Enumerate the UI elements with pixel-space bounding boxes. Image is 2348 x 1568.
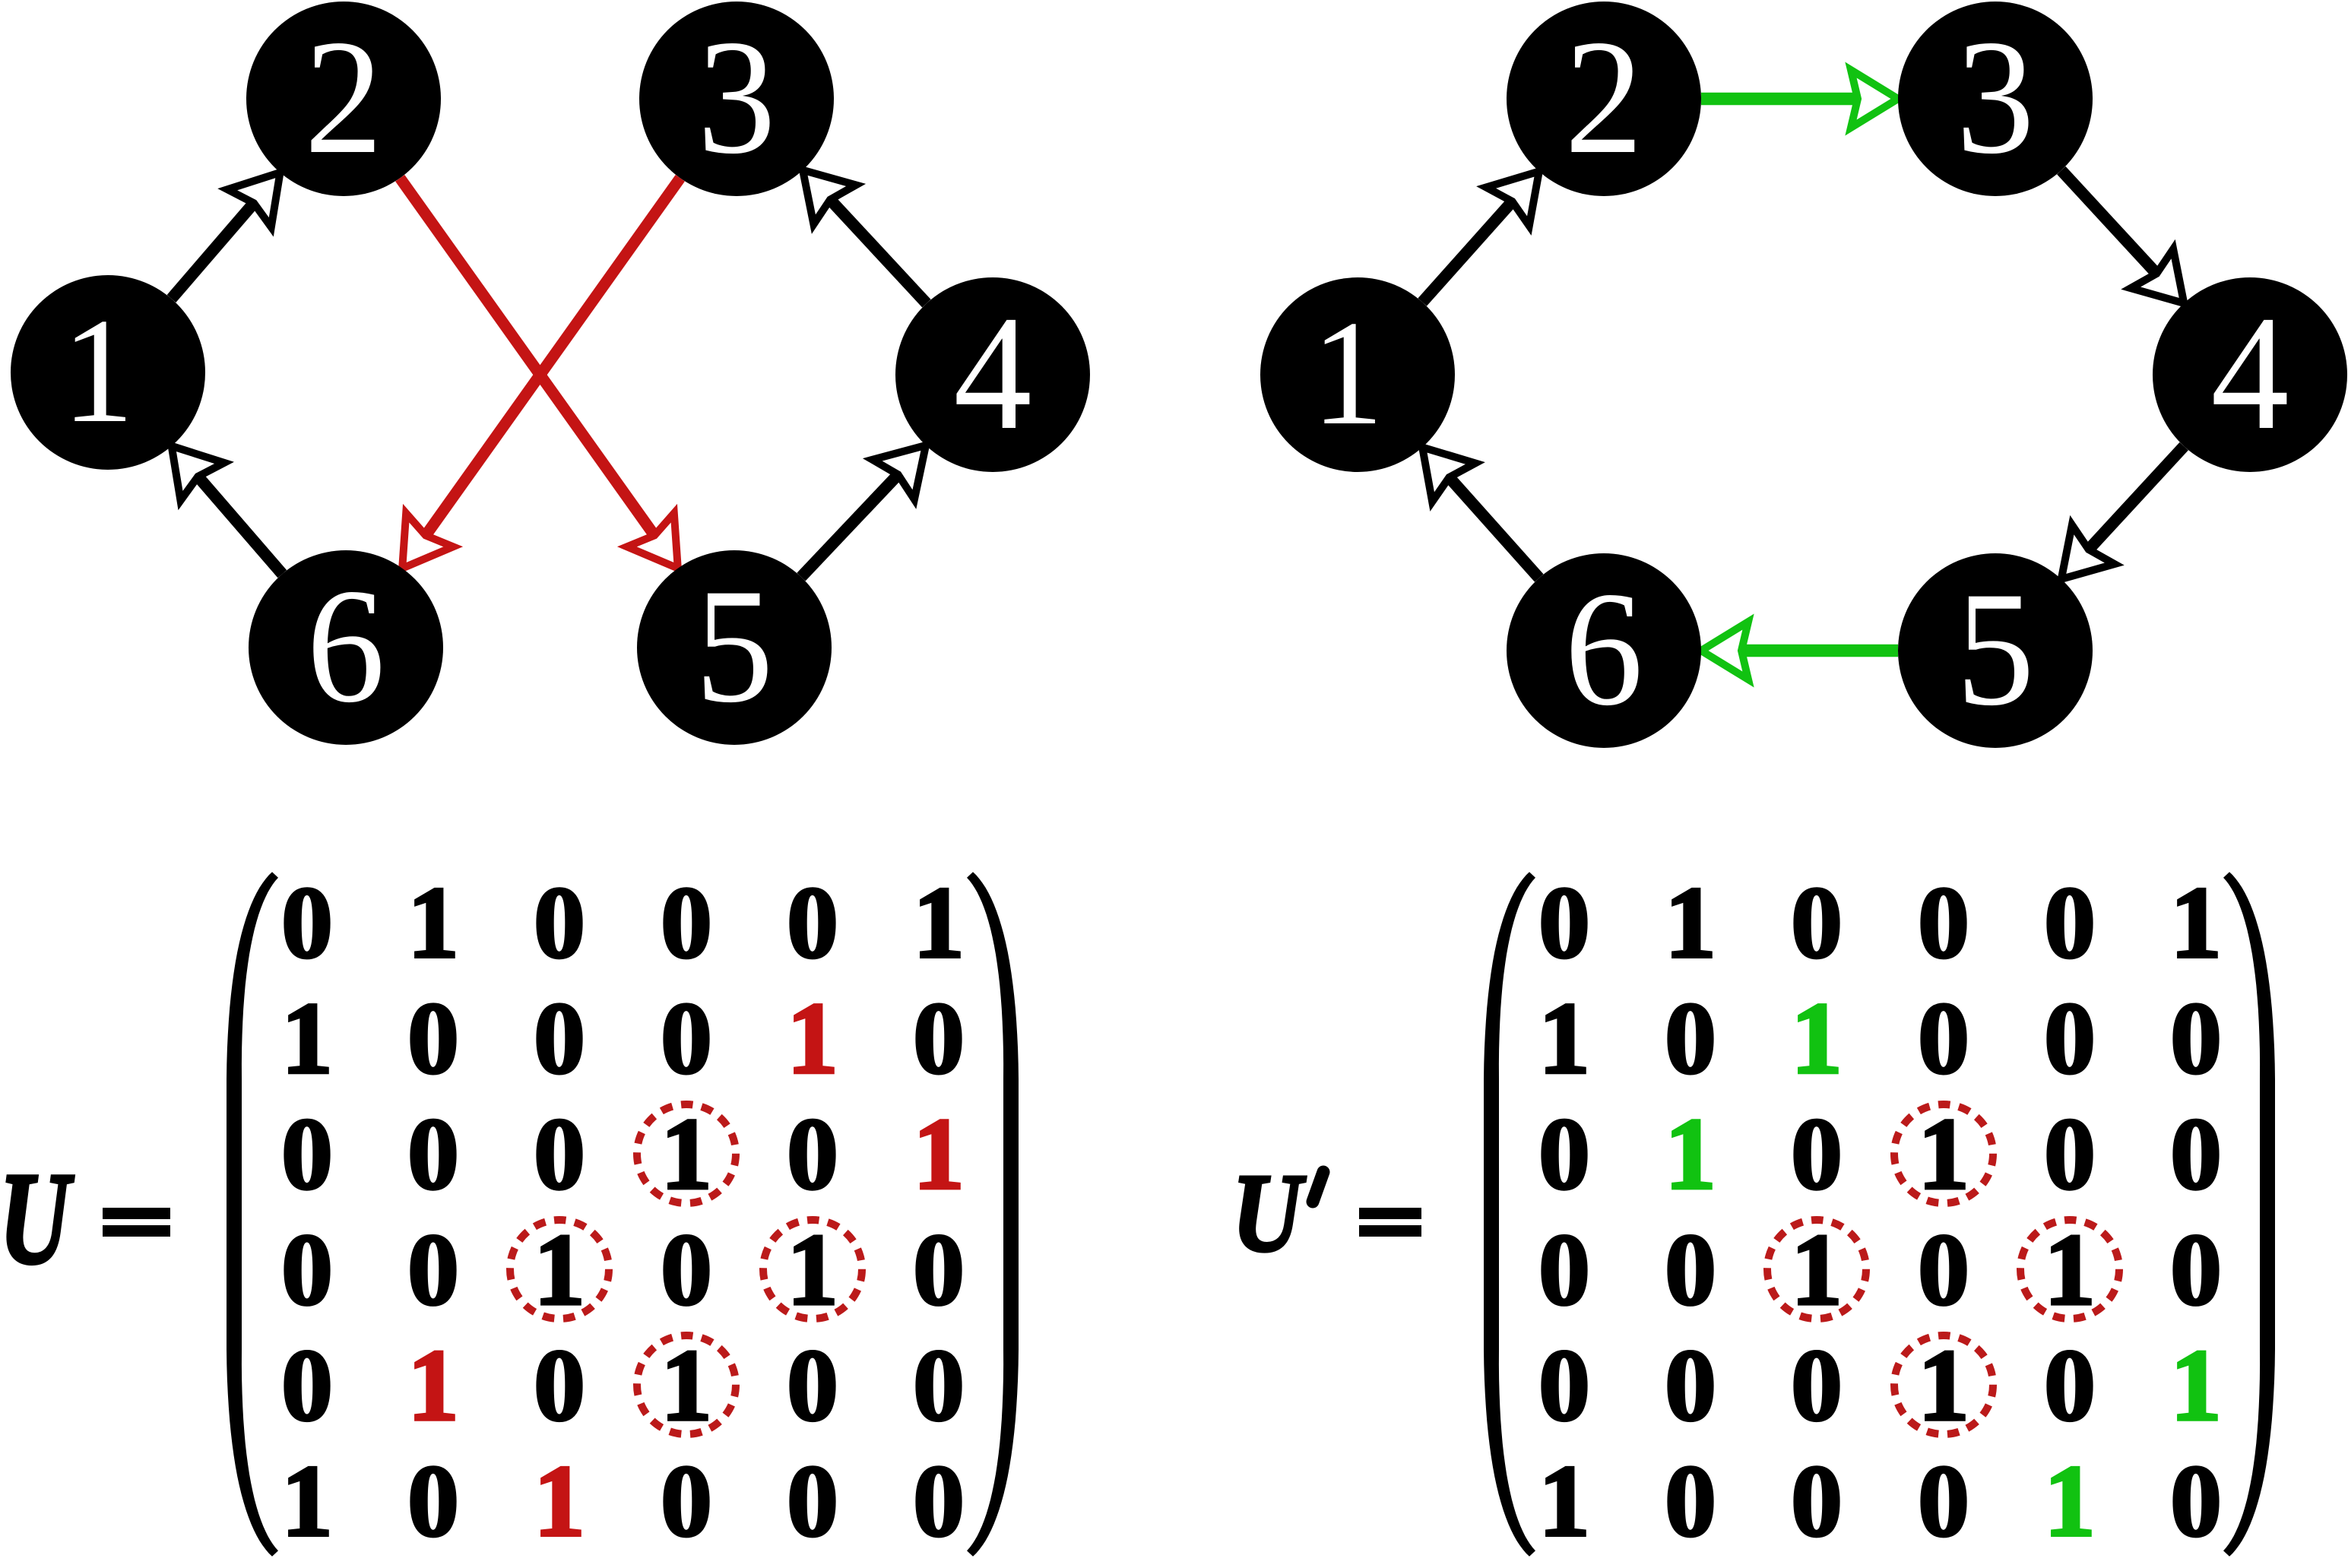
svg-text:0: 0 — [2170, 1098, 2222, 1211]
svg-text:0: 0 — [1665, 1329, 1716, 1443]
svg-text:0: 0 — [1665, 1214, 1716, 1327]
svg-text:1: 1 — [1538, 1445, 1590, 1558]
svg-text:1: 1 — [2044, 1214, 2096, 1327]
svg-text:1: 1 — [1791, 982, 1843, 1095]
svg-text:0: 0 — [407, 982, 459, 1095]
svg-text:U: U — [1232, 1151, 1306, 1275]
svg-text:1: 1 — [407, 1329, 459, 1443]
svg-text:0: 0 — [1918, 1445, 1969, 1558]
svg-text:0: 0 — [2044, 982, 2096, 1095]
svg-text:0: 0 — [787, 866, 838, 980]
svg-text:0: 0 — [281, 1214, 333, 1327]
svg-text:1: 1 — [2170, 866, 2222, 980]
svg-text:0: 0 — [787, 1329, 838, 1443]
svg-text:0: 0 — [2044, 866, 2096, 980]
svg-text:1: 1 — [1665, 1098, 1716, 1211]
svg-text:0: 0 — [407, 1098, 459, 1211]
svg-text:0: 0 — [281, 866, 333, 980]
svg-text:0: 0 — [2170, 982, 2222, 1095]
svg-text:0: 0 — [2044, 1098, 2096, 1211]
svg-text:0: 0 — [913, 1445, 965, 1558]
svg-text:0: 0 — [913, 982, 965, 1095]
svg-text:0: 0 — [534, 866, 585, 980]
svg-text:1: 1 — [1918, 1098, 1969, 1211]
svg-text:3: 3 — [1956, 6, 2034, 188]
svg-text:2: 2 — [1564, 6, 1643, 188]
svg-text:0: 0 — [1538, 1214, 1590, 1327]
svg-text:0: 0 — [2170, 1214, 2222, 1327]
svg-text:0: 0 — [2170, 1445, 2222, 1558]
svg-text:1: 1 — [534, 1214, 585, 1327]
svg-text:6: 6 — [306, 555, 385, 736]
svg-text:0: 0 — [1918, 982, 1969, 1095]
svg-text:0: 0 — [787, 1098, 838, 1211]
svg-text:0: 0 — [1791, 1329, 1843, 1443]
svg-text:0: 0 — [534, 1098, 585, 1211]
svg-text:1: 1 — [62, 287, 135, 454]
svg-text:0: 0 — [1918, 866, 1969, 980]
svg-text:1: 1 — [407, 866, 459, 980]
svg-text:0: 0 — [787, 1445, 838, 1558]
svg-text:0: 0 — [1538, 1098, 1590, 1211]
svg-text:1: 1 — [281, 1445, 333, 1558]
svg-text:0: 0 — [661, 982, 712, 1095]
svg-text:4: 4 — [2210, 282, 2289, 464]
svg-text:3: 3 — [697, 6, 775, 188]
svg-text:0: 0 — [913, 1329, 965, 1443]
svg-text:1: 1 — [1665, 866, 1716, 980]
svg-text:1: 1 — [1791, 1214, 1843, 1327]
svg-text:0: 0 — [1791, 866, 1843, 980]
svg-text:0: 0 — [1538, 1329, 1590, 1443]
svg-text:0: 0 — [1791, 1445, 1843, 1558]
svg-text:1: 1 — [1538, 982, 1590, 1095]
svg-text:1: 1 — [787, 1214, 838, 1327]
svg-text:5: 5 — [695, 555, 773, 736]
svg-text:1: 1 — [2044, 1445, 2096, 1558]
svg-text:0: 0 — [661, 866, 712, 980]
svg-text:6: 6 — [1564, 558, 1643, 740]
svg-text:0: 0 — [281, 1098, 333, 1211]
svg-text:0: 0 — [1538, 866, 1590, 980]
svg-text:1: 1 — [1312, 289, 1384, 456]
svg-text:0: 0 — [1791, 1098, 1843, 1211]
svg-text:1: 1 — [913, 1098, 965, 1211]
svg-text:U: U — [0, 1145, 74, 1291]
svg-text:0: 0 — [281, 1329, 333, 1443]
svg-text:4: 4 — [953, 282, 1031, 464]
svg-text:5: 5 — [1956, 558, 2034, 740]
svg-text:1: 1 — [913, 866, 965, 980]
svg-text:1: 1 — [1918, 1329, 1969, 1443]
svg-text:0: 0 — [1665, 1445, 1716, 1558]
svg-text:0: 0 — [407, 1214, 459, 1327]
svg-text:0: 0 — [407, 1445, 459, 1558]
svg-text:1: 1 — [661, 1329, 712, 1443]
svg-text:0: 0 — [661, 1445, 712, 1558]
svg-text:2: 2 — [304, 6, 382, 188]
svg-text:1: 1 — [534, 1445, 585, 1558]
svg-text:0: 0 — [534, 1329, 585, 1443]
svg-text:0: 0 — [1665, 982, 1716, 1095]
svg-text:0: 0 — [534, 982, 585, 1095]
svg-text:1: 1 — [281, 982, 333, 1095]
svg-text:0: 0 — [2044, 1329, 2096, 1443]
svg-text:0: 0 — [1918, 1214, 1969, 1327]
svg-text:1: 1 — [787, 982, 838, 1095]
svg-text:0: 0 — [661, 1214, 712, 1327]
svg-text:1: 1 — [661, 1098, 712, 1211]
svg-text:0: 0 — [913, 1214, 965, 1327]
svg-text:1: 1 — [2170, 1329, 2222, 1443]
